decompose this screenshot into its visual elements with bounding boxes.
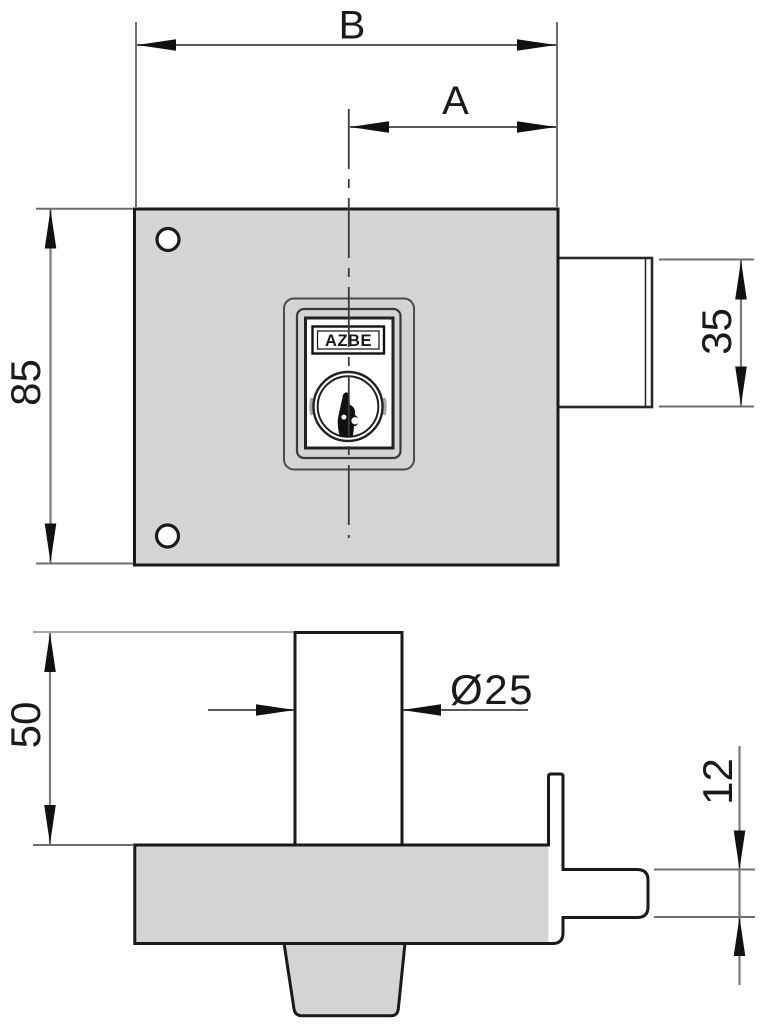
dimension 85 (left) bbox=[2, 209, 133, 564]
escutcheon outer plate bbox=[284, 299, 414, 470]
svg-text:85: 85 bbox=[2, 359, 49, 406]
escutcheon middle plate bbox=[297, 309, 401, 458]
escutcheon inner plate bbox=[306, 318, 394, 448]
case plate (gray) bbox=[135, 845, 549, 944]
screw hole bottom-left bbox=[157, 525, 179, 547]
key silhouette bbox=[338, 392, 359, 436]
svg-text:35: 35 bbox=[693, 308, 740, 355]
case profile fill (white under flange/bolt) bbox=[135, 774, 648, 944]
svg-text:Ø25: Ø25 bbox=[450, 666, 534, 713]
dimension Ø25 (cylinder diameter) bbox=[208, 666, 534, 716]
cylinder side notch right bbox=[384, 398, 385, 415]
cylinder side notch left bbox=[311, 398, 312, 415]
svg-text:50: 50 bbox=[2, 702, 49, 749]
AZBE label box bbox=[313, 327, 385, 354]
dimension 50 (bottom view left) bbox=[2, 632, 294, 845]
cylinder (side view) bbox=[295, 633, 402, 846]
bolt (top view, right side) bbox=[556, 258, 652, 407]
dimension 12 (bolt thickness) bbox=[654, 746, 755, 985]
cylinder inner ring bbox=[318, 376, 379, 437]
dimension A bbox=[350, 79, 556, 133]
lower tab (trapezoid) bbox=[284, 945, 405, 1016]
centerline (vertical axis of cylinder) bbox=[348, 109, 350, 538]
screw hole top-left bbox=[157, 229, 179, 251]
cylinder outer ring bbox=[314, 372, 383, 441]
case outline (plate + flange + bolt) bbox=[135, 774, 648, 944]
lock body bbox=[135, 209, 559, 565]
svg-text:A: A bbox=[442, 79, 469, 123]
dimension 35 (top view bolt) bbox=[659, 260, 754, 407]
svg-text:B: B bbox=[339, 4, 366, 48]
svg-text:12: 12 bbox=[694, 758, 741, 805]
dimension B bbox=[136, 4, 557, 208]
